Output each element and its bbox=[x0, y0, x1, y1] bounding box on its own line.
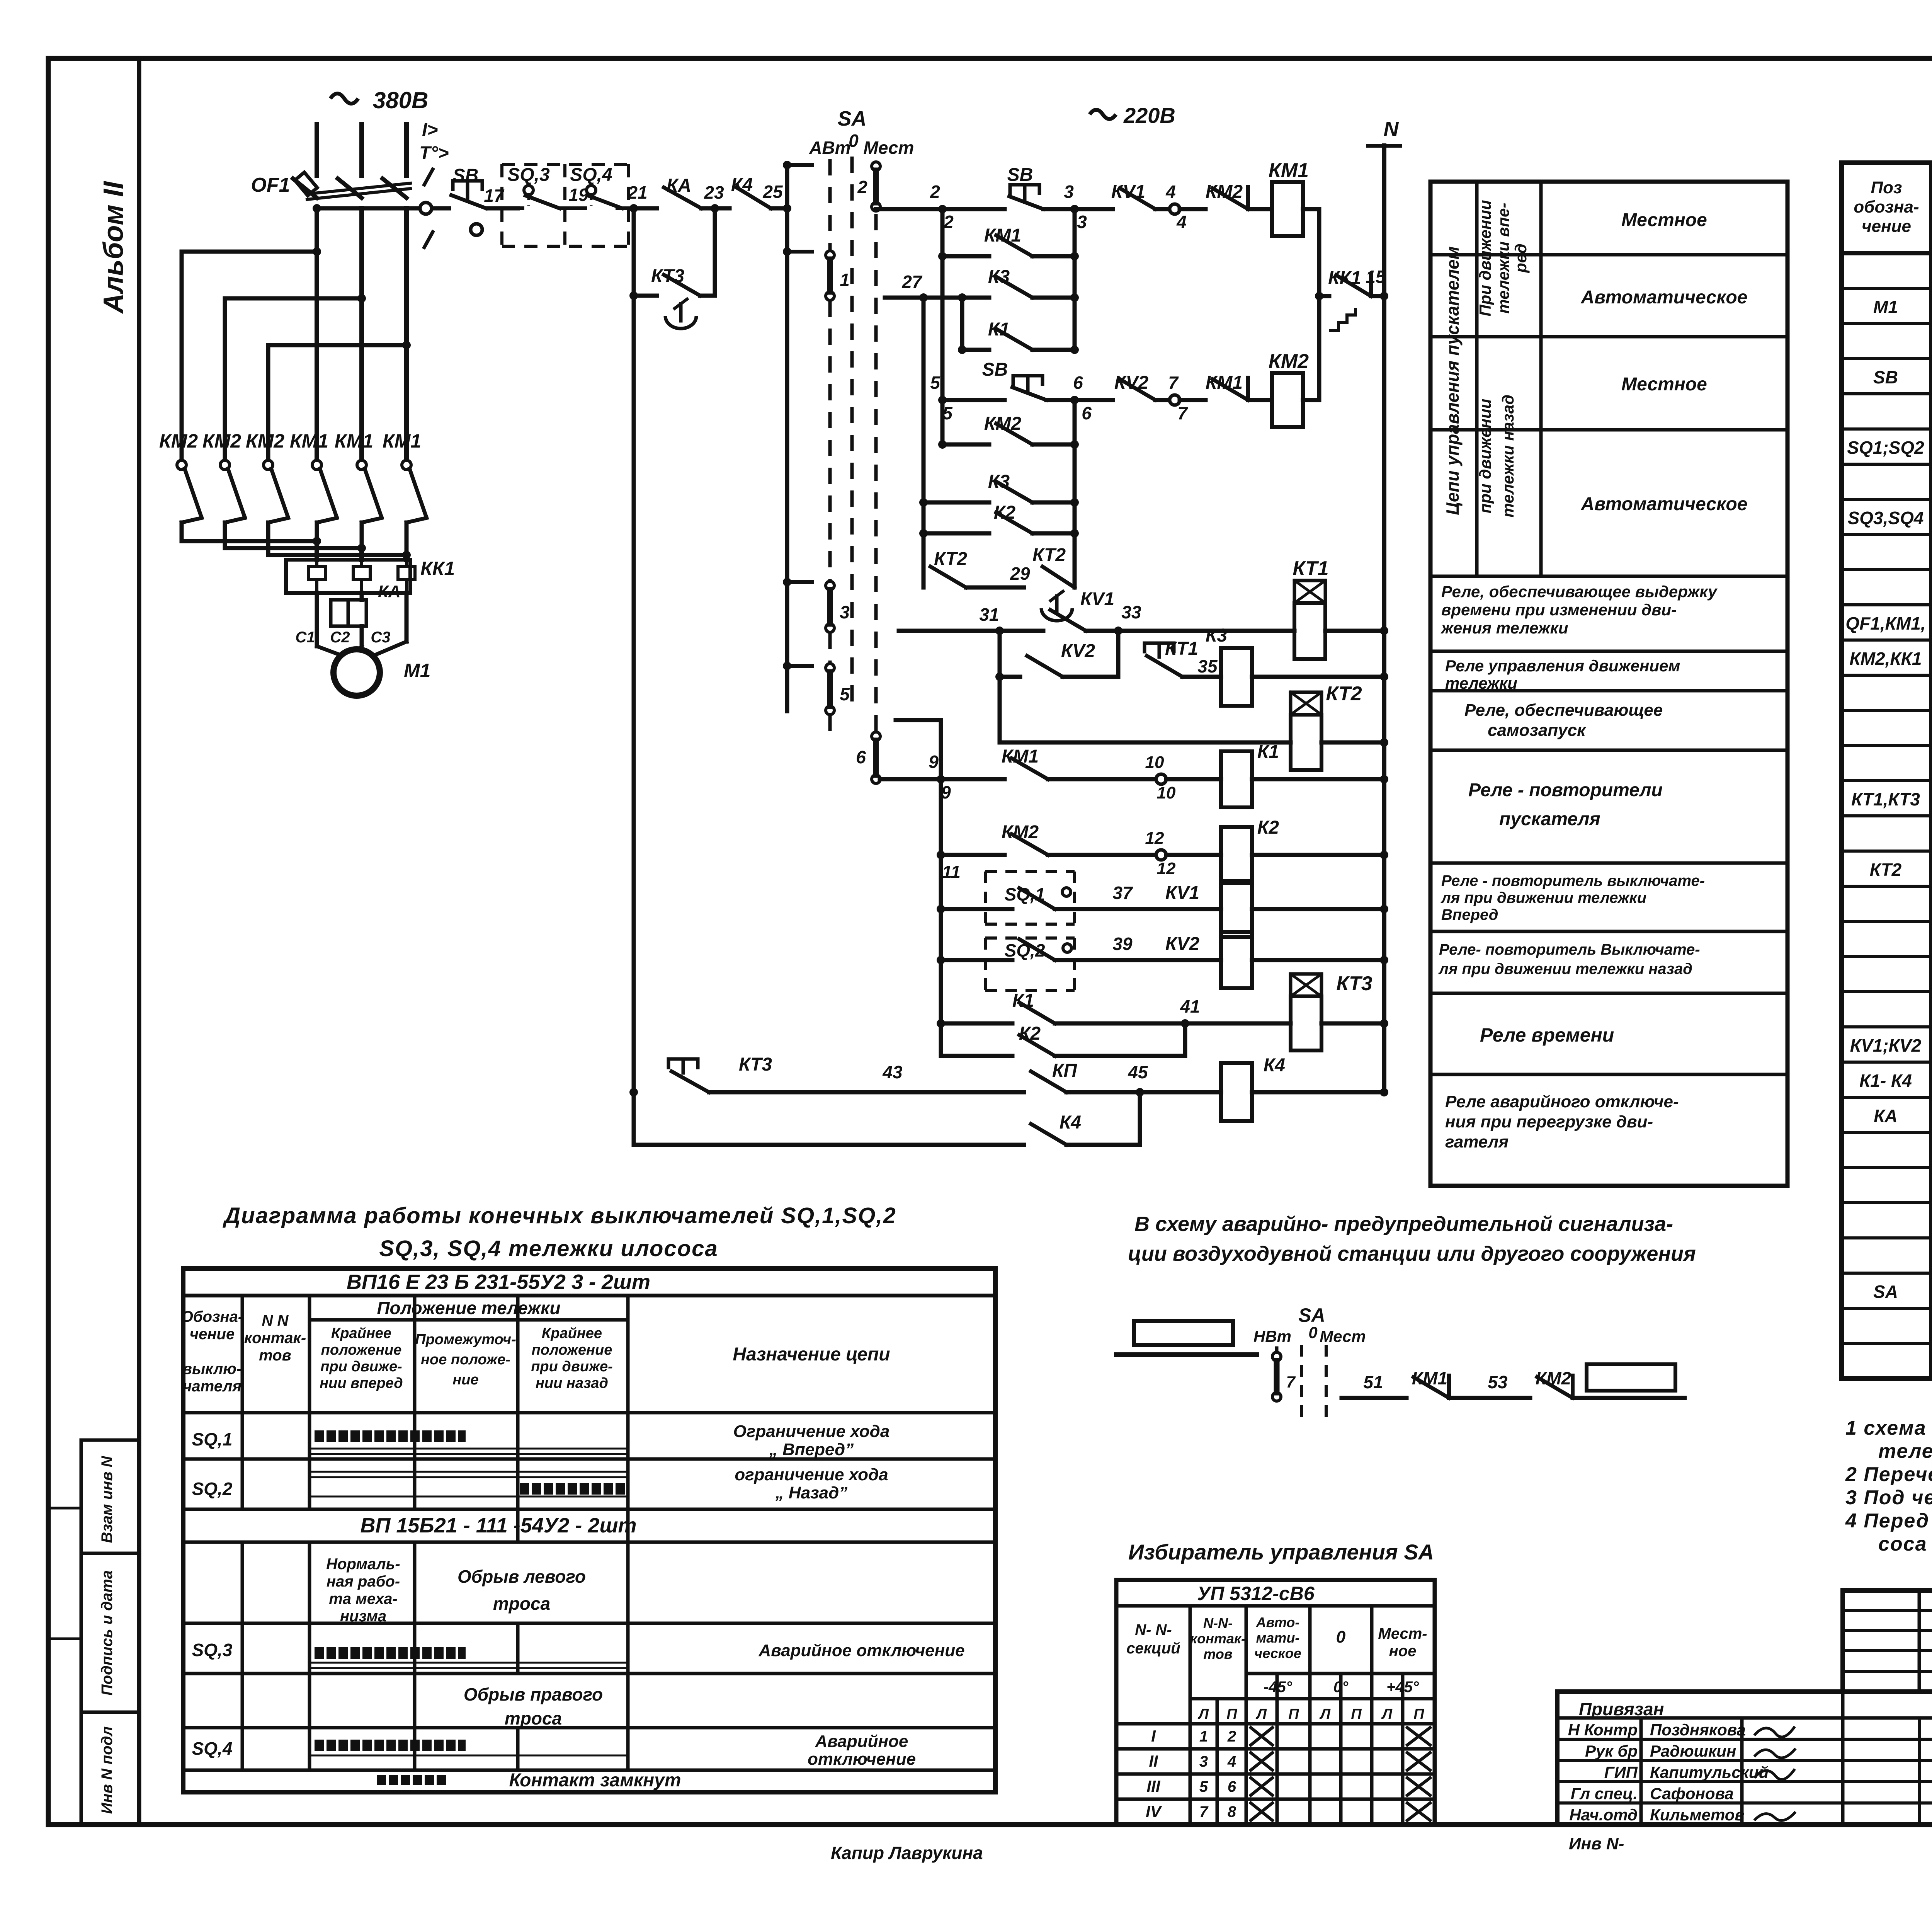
row 39 wire and SQ2 contact bbox=[937, 956, 945, 964]
svg-text:Нач.отд: Нач.отд bbox=[1569, 1806, 1638, 1824]
diagram table frame bbox=[183, 1268, 995, 1792]
svg-text:Промежуточ-: Промежуточ- bbox=[415, 1331, 516, 1348]
svg-text:отключение: отключение bbox=[808, 1750, 916, 1769]
svg-text:Мест: Мест bbox=[864, 138, 914, 158]
relay K1 contact branch bbox=[960, 298, 964, 350]
SQ4 state lines bbox=[310, 1755, 628, 1757]
svg-text:КV2: КV2 bbox=[1114, 373, 1149, 393]
svg-text:Крайнее: Крайнее bbox=[542, 1325, 602, 1342]
svg-text:7: 7 bbox=[1199, 1803, 1209, 1820]
svg-text:КV1: КV1 bbox=[1165, 883, 1199, 903]
SA contact 5 on AVt line bbox=[826, 664, 834, 672]
selector table frame bbox=[1116, 1580, 1435, 1824]
svg-text:0: 0 bbox=[1336, 1628, 1346, 1646]
junction dots row A/aux bbox=[1070, 205, 1079, 213]
svg-text:секций: секций bbox=[1126, 1640, 1180, 1657]
svg-text:Цепи управления пускателем: Цепи управления пускателем bbox=[1442, 246, 1463, 515]
middle description table frame bbox=[1430, 182, 1787, 1186]
svg-text:QF1,КМ1,: QF1,КМ1, bbox=[1845, 613, 1925, 633]
svg-text:В схему аварийно- предупреди: В схему аварийно- предупредительной сигн… bbox=[1134, 1212, 1673, 1236]
left bus 27 down to KT2 row bbox=[922, 298, 926, 587]
svg-text:Т°>: Т°> bbox=[419, 143, 449, 163]
svg-text:КТ2: КТ2 bbox=[1326, 683, 1362, 705]
phase line L1 stub bbox=[315, 124, 319, 176]
svg-text:4 Перед переводом в режи: 4 Перед переводом в режим автоматической… bbox=[1845, 1510, 1932, 1532]
svg-text:ограничение хода: ограничение хода bbox=[735, 1465, 888, 1484]
svg-text:7: 7 bbox=[1177, 403, 1188, 423]
title block signature rows bbox=[1557, 1738, 1932, 1741]
svg-text:Л: Л bbox=[1319, 1706, 1331, 1722]
SQ3 closed-contact hatch bar bbox=[315, 1647, 466, 1659]
svg-text:ВП 15Б21 - 111 -54У2 - 2шт: ВП 15Б21 - 111 -54У2 - 2шт bbox=[361, 1514, 637, 1537]
svg-text:КМ1: КМ1 bbox=[335, 430, 373, 452]
long left wire from node 21 down to interlock rows bbox=[632, 296, 636, 1092]
svg-text:тележки впе-: тележки впе- bbox=[1494, 203, 1512, 314]
svg-text:4: 4 bbox=[1227, 1753, 1236, 1770]
wire coil KM2 up to KK1 node bbox=[1317, 296, 1321, 400]
svg-text:SQ,3: SQ,3 bbox=[507, 165, 550, 185]
limit switch SQ2 dashed box bbox=[985, 936, 1075, 940]
SA contact 2 on Mest line bbox=[872, 162, 880, 170]
svg-text:Кильметов: Кильметов bbox=[1650, 1806, 1745, 1824]
svg-text:жения тележки: жения тележки bbox=[1440, 619, 1568, 637]
control bus from node 25 bbox=[785, 165, 789, 711]
wire from SA contact 6 to node 9 bbox=[880, 777, 941, 781]
svg-text:Реле- повторитель Выключат: Реле- повторитель Выключате- bbox=[1439, 941, 1700, 958]
limit switch SQ1 dashed box bbox=[985, 870, 1075, 873]
limit switch SQ4 contact bbox=[587, 186, 596, 195]
title block left border upper bbox=[1840, 1590, 1845, 1692]
svg-text:Автоматическое: Автоматическое bbox=[1581, 494, 1748, 514]
svg-text:31: 31 bbox=[979, 604, 999, 625]
selector L P row bbox=[1190, 1697, 1435, 1701]
svg-text:КТ2: КТ2 bbox=[1870, 860, 1902, 880]
SQ4 closed-contact hatch bar bbox=[315, 1740, 466, 1751]
svg-text:27: 27 bbox=[901, 272, 923, 292]
svg-text:Аварийное: Аварийное bbox=[815, 1732, 908, 1751]
svg-text:КТ3: КТ3 bbox=[1336, 972, 1372, 995]
middle table verticals bbox=[1475, 182, 1479, 576]
svg-text:при движении: при движении bbox=[1476, 399, 1494, 514]
svg-text:Инв N-: Инв N- bbox=[1569, 1834, 1624, 1853]
svg-text:С2: С2 bbox=[330, 629, 350, 646]
N bus vertical bbox=[1382, 146, 1386, 1092]
bus tick 3 bbox=[787, 580, 812, 584]
left stamp column box bbox=[80, 1440, 83, 1825]
svg-text:„ Вперед”: „ Вперед” bbox=[769, 1440, 854, 1459]
bus jog above row 9 bbox=[896, 718, 941, 722]
svg-text:положение: положение bbox=[532, 1342, 612, 1358]
svg-text:Реле - повторитель выключате: Реле - повторитель выключате- bbox=[1441, 872, 1705, 889]
svg-text:8: 8 bbox=[1228, 1803, 1236, 1820]
svg-text:самозапуск: самозапуск bbox=[1488, 721, 1587, 740]
svg-text:-45°: -45° bbox=[1264, 1679, 1293, 1696]
title block upper grid rows bbox=[1843, 1609, 1932, 1612]
svg-text:Нормаль-: Нормаль- bbox=[326, 1556, 400, 1573]
svg-text:II: II bbox=[1149, 1752, 1158, 1770]
svg-text:чение: чение bbox=[190, 1326, 235, 1343]
svg-text:Рук бр: Рук бр bbox=[1585, 1742, 1638, 1760]
diagram header row bottom bbox=[183, 1411, 995, 1415]
loop wire phase2 to KM2 contact 2 bbox=[225, 298, 362, 460]
svg-text:ВП16 Е 23 Б 231-55У2 3 - 2шт: ВП16 Е 23 Б 231-55У2 3 - 2шт bbox=[347, 1270, 650, 1294]
svg-text:Л: Л bbox=[1255, 1706, 1267, 1722]
svg-text:5: 5 bbox=[840, 684, 850, 704]
limit switch box SQ3/SQ4 dashed outline bbox=[502, 163, 629, 166]
svg-text:С3: С3 bbox=[371, 629, 390, 646]
svg-text:Диаграмма работы конечных в: Диаграмма работы конечных выключателей S… bbox=[222, 1203, 896, 1228]
svg-text:Реле управления движением: Реле управления движением bbox=[1445, 657, 1680, 675]
svg-text:53: 53 bbox=[1488, 1372, 1508, 1392]
svg-text:SВ: SВ bbox=[982, 359, 1008, 380]
KM2 aux contact row (seal-in) bbox=[940, 400, 945, 444]
svg-text:6: 6 bbox=[1082, 403, 1092, 423]
svg-text:SQ,2: SQ,2 bbox=[192, 1479, 233, 1499]
row 37 wire and SQ1 contact bbox=[937, 905, 945, 913]
KT3 bypass branch from node 21 bbox=[632, 208, 636, 296]
svg-text:нии назад: нии назад bbox=[536, 1375, 608, 1391]
SA bottom dashed columns bbox=[1300, 1345, 1303, 1422]
svg-text:КМ1: КМ1 bbox=[984, 225, 1021, 246]
svg-text:2: 2 bbox=[1227, 1728, 1236, 1745]
svg-text:АВт: АВт bbox=[809, 138, 850, 158]
svg-text:I>: I> bbox=[422, 120, 438, 140]
svg-text:КК1: КК1 bbox=[420, 558, 455, 579]
svg-text:КП: КП bbox=[1052, 1061, 1078, 1081]
svg-text:тов: тов bbox=[1203, 1646, 1232, 1662]
svg-text:Реле, обеспечивающее выдержку: Реле, обеспечивающее выдержку bbox=[1441, 582, 1718, 601]
svg-text:3 Под чертой дана марк: 3 Под чертой дана маркировка клемм силов… bbox=[1845, 1486, 1932, 1509]
element list verticals bbox=[1929, 163, 1932, 1379]
svg-text:пускателя: пускателя bbox=[1499, 809, 1600, 829]
SA column 0 dashed line bbox=[850, 157, 854, 711]
circuit breaker QF1 pole 1 bbox=[293, 179, 317, 198]
svg-text:SА: SА bbox=[837, 107, 866, 130]
svg-text:обозна-: обозна- bbox=[1854, 197, 1919, 216]
SQ2 closed-contact hatch bar bbox=[520, 1483, 626, 1495]
svg-text:7: 7 bbox=[1168, 373, 1179, 393]
inner border line (left stamp margin) bbox=[137, 58, 141, 1825]
svg-text:КМ2: КМ2 bbox=[246, 430, 284, 452]
svg-text:КМ2: КМ2 bbox=[1206, 182, 1243, 202]
row A wire from SA contact 2 to node 2 bbox=[876, 207, 942, 211]
wire to SQ3 box bbox=[510, 206, 518, 211]
title block upper grid verticals bbox=[1918, 1590, 1921, 1692]
SQ2 state lines bbox=[310, 1471, 628, 1473]
svg-text:2: 2 bbox=[943, 212, 954, 232]
svg-text:220В: 220В bbox=[1123, 103, 1175, 128]
SB lower terminal circle bbox=[471, 224, 482, 235]
svg-text:SА: SА bbox=[1298, 1304, 1325, 1326]
svg-text:Сафонова: Сафонова bbox=[1650, 1784, 1734, 1803]
circuit breaker QF1 pole 2 bbox=[338, 179, 362, 198]
time relay coil KT2 row bbox=[1000, 741, 1291, 745]
svg-text:ное: ное bbox=[1389, 1643, 1417, 1660]
svg-text:3: 3 bbox=[840, 602, 850, 622]
SA column AVt dashed line bbox=[828, 159, 832, 250]
svg-text:SQ,3, SQ,4 тележки илососа: SQ,3, SQ,4 тележки илососа bbox=[379, 1236, 718, 1261]
motor M1 circle bbox=[317, 646, 346, 657]
svg-text:КТ3: КТ3 bbox=[739, 1054, 772, 1075]
current relay KA box on phases bbox=[315, 593, 319, 646]
svg-text:6: 6 bbox=[1073, 373, 1083, 393]
svg-text:SQ,4: SQ,4 bbox=[570, 165, 612, 185]
svg-text:тележки: тележки bbox=[1445, 674, 1517, 692]
svg-text:45: 45 bbox=[1128, 1062, 1148, 1082]
svg-text:КМ2: КМ2 bbox=[984, 414, 1021, 434]
svg-text:35: 35 bbox=[1197, 656, 1218, 676]
svg-text:К1- К4: К1- К4 bbox=[1859, 1071, 1912, 1091]
title block top border bbox=[1843, 1588, 1932, 1593]
svg-text:нии вперед: нии вперед bbox=[320, 1375, 403, 1391]
diagram table verticals bbox=[241, 1296, 244, 1509]
svg-text:Обрыв левого: Обрыв левого bbox=[457, 1566, 586, 1587]
svg-text:I: I bbox=[1151, 1727, 1156, 1745]
svg-text:9: 9 bbox=[929, 752, 939, 772]
squiggle signatures bbox=[1754, 1726, 1795, 1737]
svg-text:ная рабо-: ная рабо- bbox=[327, 1573, 400, 1590]
SQ1 state lines bbox=[310, 1448, 628, 1450]
selector table verticals bbox=[1189, 1606, 1192, 1824]
svg-text:N- N-: N- N- bbox=[1135, 1621, 1172, 1638]
svg-text:положение: положение bbox=[321, 1342, 402, 1358]
svg-text:чателя: чателя bbox=[183, 1378, 241, 1395]
circuit breaker QF1 pole 3 bbox=[383, 179, 406, 198]
title block mid border bbox=[1557, 1689, 1932, 1694]
element list row lines bbox=[1842, 287, 1932, 290]
svg-text:Н Контр: Н Контр bbox=[1568, 1721, 1638, 1739]
svg-text:Гл спец.: Гл спец. bbox=[1571, 1784, 1638, 1803]
svg-text:контак-: контак- bbox=[244, 1330, 306, 1347]
SA contact 1 on AVt line bbox=[826, 251, 834, 259]
SQ3 state lines bbox=[310, 1662, 628, 1664]
svg-text:К1: К1 bbox=[1257, 742, 1279, 762]
svg-text:ГИП: ГИП bbox=[1604, 1763, 1638, 1781]
svg-text:КV1: КV1 bbox=[1080, 589, 1114, 609]
svg-text:41: 41 bbox=[1180, 996, 1200, 1016]
svg-text:ред: ред bbox=[1512, 243, 1530, 273]
svg-text:21: 21 bbox=[627, 182, 647, 203]
svg-text:соса необходимо перевест: соса необходимо перевести в крайнее поло… bbox=[1878, 1533, 1932, 1555]
svg-text:К4: К4 bbox=[1060, 1112, 1081, 1133]
svg-text:29: 29 bbox=[1010, 564, 1030, 584]
svg-text:П: П bbox=[1288, 1706, 1299, 1722]
left bus node2-node5 bbox=[940, 209, 945, 400]
svg-text:КА: КА bbox=[378, 582, 401, 601]
svg-text:25: 25 bbox=[762, 182, 783, 202]
row 31 wire bbox=[899, 629, 1000, 633]
svg-text:1: 1 bbox=[1199, 1728, 1208, 1745]
svg-text:3: 3 bbox=[1199, 1753, 1208, 1770]
svg-text:С1: С1 bbox=[295, 629, 315, 646]
SA contact 6 on Mest line bbox=[872, 732, 880, 741]
svg-text:43: 43 bbox=[882, 1062, 903, 1082]
svg-text:5: 5 bbox=[930, 373, 940, 393]
svg-text:6: 6 bbox=[1228, 1778, 1236, 1795]
svg-text:КМ1: КМ1 bbox=[1269, 159, 1309, 182]
svg-text:Альбом II: Альбом II bbox=[98, 180, 129, 314]
phase L2 vertical bbox=[359, 208, 364, 460]
svg-text:0: 0 bbox=[1308, 1323, 1317, 1342]
bus tick 4 bbox=[787, 664, 812, 668]
svg-text:КМ1: КМ1 bbox=[1206, 373, 1243, 393]
svg-text:выклю-: выклю- bbox=[183, 1360, 241, 1377]
row 51-53 wire bbox=[1342, 1396, 1406, 1400]
svg-text:Капитульский: Капитульский bbox=[1650, 1763, 1769, 1781]
middle table horizontals bbox=[1430, 253, 1787, 257]
svg-text:ния при перегрузке дви-: ния при перегрузке дви- bbox=[1445, 1112, 1653, 1131]
svg-text:N: N bbox=[1384, 117, 1399, 141]
limit switch SQ3 contact bbox=[524, 186, 533, 195]
svg-text:Поз: Поз bbox=[1871, 178, 1902, 197]
svg-text:SQ3,SQ4: SQ3,SQ4 bbox=[1848, 508, 1924, 528]
svg-text:При движении: При движении bbox=[1476, 200, 1494, 316]
phase line L3 stub bbox=[404, 124, 409, 176]
svg-text:SQ,3: SQ,3 bbox=[192, 1640, 233, 1660]
svg-text:при движе-: при движе- bbox=[531, 1359, 613, 1375]
element list table frame bbox=[1842, 163, 1932, 1379]
svg-text:10: 10 bbox=[1145, 753, 1164, 772]
svg-text:2: 2 bbox=[930, 182, 940, 202]
svg-text:та меха-: та меха- bbox=[329, 1590, 398, 1607]
svg-text:SQ,4: SQ,4 bbox=[192, 1738, 233, 1759]
svg-text:Местное: Местное bbox=[1621, 210, 1707, 230]
svg-text:ля при движении тележки: ля при движении тележки bbox=[1440, 889, 1646, 906]
crossover bottom wire pair 1 bbox=[182, 539, 317, 543]
SA column Mest dashed line bbox=[874, 214, 878, 732]
svg-text:37: 37 bbox=[1112, 883, 1133, 903]
svg-text:Л: Л bbox=[1381, 1706, 1393, 1722]
svg-text:III: III bbox=[1146, 1777, 1160, 1795]
svg-text:2 Перечень элементов дан: 2 Перечень элементов дан на 1 тележку ил… bbox=[1845, 1463, 1932, 1486]
svg-text:Авто-: Авто- bbox=[1256, 1614, 1300, 1630]
svg-text:SQ,1: SQ,1 bbox=[192, 1429, 233, 1449]
loop wire phase1 to KM2 contact 1 bbox=[182, 252, 317, 460]
svg-text:Ограничение хода: Ограничение хода bbox=[733, 1422, 890, 1441]
svg-text:ля при движении тележки н: ля при движении тележки назад bbox=[1438, 960, 1692, 977]
svg-text:КТ1: КТ1 bbox=[1293, 557, 1328, 580]
SA bottom contact 7 bbox=[1272, 1352, 1281, 1361]
svg-text:КА: КА bbox=[1874, 1106, 1898, 1126]
wire number 1 marks bbox=[424, 169, 433, 185]
crossover bottom wire pair 3 bbox=[266, 541, 270, 555]
svg-text:КМ1: КМ1 bbox=[290, 430, 328, 452]
svg-text:КМ2: КМ2 bbox=[1269, 350, 1309, 373]
QF1 trip unit box bbox=[295, 172, 317, 196]
bus rows 9-K2 bbox=[939, 779, 943, 1056]
svg-text:Автоматическое: Автоматическое bbox=[1581, 287, 1748, 308]
phase L3 vertical bbox=[404, 208, 409, 460]
svg-text:23: 23 bbox=[704, 182, 724, 203]
svg-text:Реле - повторители: Реле - повторители bbox=[1468, 780, 1663, 800]
svg-text:контак-: контак- bbox=[1190, 1631, 1246, 1646]
legend kontakt zamknut bbox=[377, 1775, 448, 1785]
svg-text:+45°: +45° bbox=[1386, 1679, 1419, 1696]
svg-text:Позднякова: Позднякова bbox=[1650, 1721, 1746, 1739]
svg-text:12: 12 bbox=[1145, 829, 1164, 848]
svg-text:Назначение цепи: Назначение цепи bbox=[733, 1344, 890, 1365]
svg-text:К4: К4 bbox=[1264, 1055, 1285, 1076]
svg-text:КТ2: КТ2 bbox=[1032, 545, 1066, 565]
phase line L2 stub bbox=[359, 124, 364, 176]
wire coil KM1 to KK1 contact bbox=[1317, 209, 1321, 296]
svg-text:чение: чение bbox=[1862, 217, 1911, 236]
svg-text:КМ2: КМ2 bbox=[159, 430, 198, 452]
svg-text:SА: SА bbox=[1873, 1282, 1898, 1302]
svg-text:К3: К3 bbox=[1206, 625, 1228, 646]
svg-text:НВт: НВт bbox=[1253, 1327, 1291, 1345]
svg-text:3: 3 bbox=[1077, 212, 1087, 232]
svg-text:КМ2,КК1: КМ2,КК1 bbox=[1849, 649, 1922, 669]
svg-text:2: 2 bbox=[857, 177, 867, 197]
svg-text:0°: 0° bbox=[1333, 1679, 1349, 1696]
svg-text:Взам инв N: Взам инв N bbox=[99, 1456, 116, 1543]
loop wire phase3 to KM2 contact 3 bbox=[268, 345, 406, 460]
svg-text:КV1;КV2: КV1;КV2 bbox=[1850, 1035, 1922, 1056]
svg-text:КV2: КV2 bbox=[1165, 934, 1200, 954]
svg-text:N-N-: N-N- bbox=[1203, 1615, 1233, 1631]
svg-text:0: 0 bbox=[849, 131, 859, 151]
svg-text:„ Назад”: „ Назад” bbox=[775, 1483, 848, 1502]
marking rectangle left bbox=[1134, 1321, 1233, 1345]
svg-text:12: 12 bbox=[1157, 859, 1176, 878]
svg-text:Л: Л bbox=[1197, 1706, 1209, 1722]
svg-text:5: 5 bbox=[1199, 1778, 1208, 1795]
svg-text:КТ2: КТ2 bbox=[934, 549, 967, 569]
svg-text:П: П bbox=[1351, 1706, 1362, 1722]
svg-text:Радюшкин: Радюшкин bbox=[1650, 1742, 1736, 1760]
thermal overload KK1 heater block bbox=[286, 560, 410, 593]
svg-text:КТ1,КТ3: КТ1,КТ3 bbox=[1851, 789, 1920, 809]
svg-text:IV: IV bbox=[1146, 1802, 1162, 1820]
SQ1 closed-contact hatch bar bbox=[315, 1430, 466, 1442]
svg-text:мати-: мати- bbox=[1256, 1630, 1300, 1646]
svg-text:Реле, обеспечивающее: Реле, обеспечивающее bbox=[1464, 701, 1663, 720]
svg-text:КМ1: КМ1 bbox=[383, 430, 421, 452]
svg-text:51: 51 bbox=[1363, 1372, 1383, 1392]
svg-text:10: 10 bbox=[1157, 783, 1176, 802]
element list header row bbox=[1842, 251, 1932, 255]
svg-text:Контакт замкнут: Контакт замкнут bbox=[509, 1770, 681, 1791]
svg-text:троса: троса bbox=[505, 1708, 562, 1728]
svg-text:Реле аварийного отключе-: Реле аварийного отключе- bbox=[1445, 1092, 1679, 1111]
svg-text:ное положе-: ное положе- bbox=[421, 1352, 510, 1368]
svg-text:1: 1 bbox=[840, 270, 850, 290]
phase L1 vertical bbox=[315, 208, 319, 460]
svg-text:ции воздуходувной станции и: ции воздуходувной станции или другого со… bbox=[1128, 1242, 1696, 1265]
QF1 tie bar bbox=[307, 183, 410, 194]
svg-text:М1: М1 bbox=[404, 660, 430, 681]
svg-text:Подпись и дата: Подпись и дата bbox=[99, 1570, 116, 1696]
svg-text:ОF1: ОF1 bbox=[251, 174, 290, 196]
svg-text:39: 39 bbox=[1112, 934, 1133, 954]
svg-text:15: 15 bbox=[1366, 267, 1386, 287]
svg-text:N N: N N bbox=[262, 1312, 289, 1329]
svg-text:Мест: Мест bbox=[1320, 1327, 1366, 1345]
svg-text:Вперед: Вперед bbox=[1441, 906, 1498, 923]
svg-text:Обозна-: Обозна- bbox=[181, 1308, 243, 1325]
svg-text:времени при изменении дви-: времени при изменении дви- bbox=[1441, 601, 1677, 619]
SA contact 3 on AVt line bbox=[826, 581, 834, 590]
terminal circle on main wire bbox=[420, 203, 432, 214]
svg-text:К2: К2 bbox=[1257, 817, 1279, 838]
svg-text:П: П bbox=[1226, 1706, 1237, 1722]
svg-text:SВ: SВ bbox=[453, 165, 479, 186]
svg-text:SQ1;SQ2: SQ1;SQ2 bbox=[1847, 438, 1924, 458]
svg-text:КМ2: КМ2 bbox=[202, 430, 241, 452]
svg-text:SВ: SВ bbox=[1873, 367, 1898, 387]
svg-text:11: 11 bbox=[942, 862, 961, 882]
